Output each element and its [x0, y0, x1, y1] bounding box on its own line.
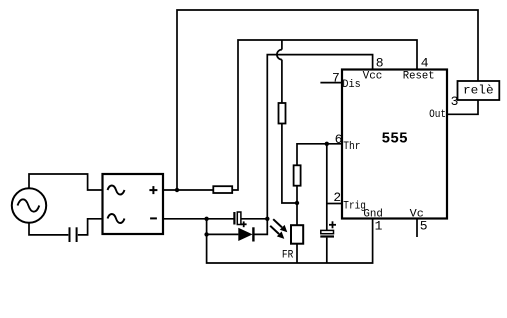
wire minus junction down to diode branch	[206, 219, 208, 235]
svg-text:1: 1	[375, 219, 383, 234]
svg-text:2: 2	[333, 190, 341, 205]
wire FR bottom to ground rail	[296, 244, 298, 263]
wire bridge + output	[163, 189, 213, 191]
svg-text:Reset: Reset	[403, 70, 435, 82]
resistor R2 (vertical)	[294, 165, 301, 185]
diode D1	[238, 227, 253, 241]
wire Vc stub pin 5	[416, 219, 418, 238]
capacitor C2 (polarized, vertical)	[320, 221, 336, 236]
resistor R1 (vertical)	[279, 103, 286, 124]
svg-text:relè: relè	[463, 84, 494, 98]
wire Thr junction down to capacitor C2	[326, 144, 328, 231]
wire bridge - output	[163, 218, 234, 220]
svg-text:6: 6	[335, 132, 343, 147]
wire hop over Vcc rail	[277, 50, 282, 60]
wire Vcc rail: vertical and to pin 8	[267, 55, 372, 219]
bridge rectifier B1	[103, 174, 164, 234]
svg-text:4: 4	[421, 56, 429, 71]
node minus junction	[204, 217, 208, 221]
svg-text:Gnd: Gnd	[363, 209, 383, 221]
resistor R3 (horizontal)	[213, 186, 232, 193]
wire to diode anode	[207, 233, 239, 235]
wire diode cathode to Vcc vertical	[253, 219, 267, 235]
wire Dis stub pin 7	[320, 82, 342, 84]
capacitor C4 (polarized, horizontal)	[234, 212, 246, 227]
FR light arrow 1	[273, 219, 287, 232]
wire R3 to Reset pin 4 rail	[232, 40, 417, 190]
AC source V1	[12, 188, 46, 222]
wire R1 bottom to junction	[282, 124, 297, 204]
svg-text:Vc: Vc	[410, 209, 424, 221]
svg-text:Thr: Thr	[343, 141, 360, 153]
wire relay to Out pin 3	[447, 100, 478, 114]
node plus junction	[175, 188, 179, 192]
wire C2 bottom to ground rail	[326, 238, 328, 263]
node C4/Vcc junction	[265, 217, 269, 221]
wire V1 bottom to capacitor C1	[29, 223, 68, 235]
wire rail2 T to resistor R1 with hop	[281, 40, 283, 50]
svg-text:Vcc: Vcc	[363, 70, 383, 82]
capacitor C1	[70, 227, 77, 242]
node Thr junction	[325, 142, 329, 146]
wire Trig stub pin 2	[327, 203, 342, 205]
node diode branch junction	[204, 232, 208, 236]
op-amp/timer IC U1 555 box	[342, 70, 447, 219]
photoresistor FR	[291, 225, 303, 244]
svg-text:5: 5	[420, 219, 428, 234]
wire R2 top to Thr pin 6	[297, 144, 342, 166]
svg-text:3: 3	[451, 94, 459, 109]
FR light arrow 2	[270, 226, 284, 239]
wire ground rail	[207, 219, 373, 264]
wire V1 top to bridge input 1	[29, 174, 103, 190]
wire C4 to Vcc rail vertical	[241, 218, 267, 220]
svg-text:Out: Out	[429, 109, 446, 121]
svg-text:8: 8	[376, 56, 384, 71]
relay box	[458, 81, 500, 100]
node R1/R2/FR junction	[295, 201, 299, 205]
svg-text:FR: FR	[282, 250, 294, 262]
wire plus junction up to top rail and to relay	[177, 10, 478, 190]
svg-text:Dis: Dis	[342, 79, 360, 91]
wire R2 bottom to FR junction	[296, 186, 298, 226]
svg-text:7: 7	[332, 70, 340, 85]
svg-text:555: 555	[382, 132, 408, 148]
wire C1 to bridge input 2	[78, 219, 103, 235]
